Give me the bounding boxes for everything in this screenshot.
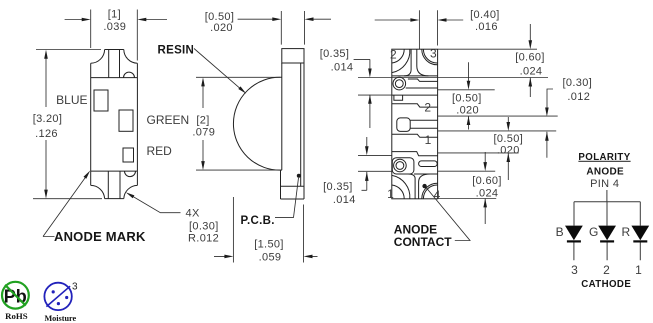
anode bus wire bbox=[574, 190, 640, 226]
svg-text:1: 1 bbox=[387, 187, 394, 201]
arrowheads for dimensions bbox=[44, 17, 549, 258]
svg-text:3: 3 bbox=[72, 282, 78, 293]
svg-text:P.C.B.: P.C.B. bbox=[241, 215, 275, 227]
left view top contact separator bbox=[91, 77, 138, 79]
diode G bbox=[598, 226, 616, 241]
svg-text:.020: .020 bbox=[497, 144, 520, 156]
svg-text:ANODE MARK: ANODE MARK bbox=[54, 229, 146, 244]
leader for anode mark bbox=[43, 177, 86, 236]
svg-text:[1]: [1] bbox=[108, 9, 121, 21]
diode B cathode bar bbox=[567, 240, 581, 242]
right view pin3 pad hole bbox=[395, 80, 403, 88]
right view small tab below pad line bbox=[394, 95, 403, 100]
svg-text:PIN 4: PIN 4 bbox=[590, 178, 619, 190]
dimension [0.50] .020 top of middle view bbox=[238, 11, 331, 45]
leader for pcb bbox=[275, 178, 299, 218]
diode G cathode bar bbox=[600, 240, 614, 242]
svg-text:.024: .024 bbox=[476, 187, 499, 199]
right view lower stepped line bbox=[392, 152, 438, 156]
right view pin3 pad bar bbox=[406, 79, 438, 88]
svg-text:[0.30]: [0.30] bbox=[562, 77, 592, 89]
right view bottom center channel bbox=[408, 174, 430, 199]
svg-text:[2]: [2] bbox=[196, 114, 209, 126]
svg-text:.126: .126 bbox=[35, 128, 58, 140]
pcb leader dot bbox=[297, 174, 301, 178]
svg-text:4: 4 bbox=[434, 188, 441, 202]
svg-text:[0.60]: [0.60] bbox=[515, 52, 545, 64]
right view horizontal reference lines bbox=[358, 49, 558, 198]
svg-text:RoHS: RoHS bbox=[5, 311, 28, 321]
leader for resin bbox=[194, 49, 240, 89]
svg-text:1: 1 bbox=[635, 263, 642, 277]
svg-text:[3.20]: [3.20] bbox=[33, 113, 63, 125]
svg-text:R.012: R.012 bbox=[188, 233, 219, 245]
svg-text:.079: .079 bbox=[192, 127, 215, 139]
svg-text:.014: .014 bbox=[331, 61, 354, 73]
svg-text:POLARITY: POLARITY bbox=[578, 152, 630, 163]
svg-text:2: 2 bbox=[603, 263, 610, 277]
dimension [0.35] .014 upper left of right view bbox=[354, 59, 370, 128]
svg-text:.020: .020 bbox=[210, 22, 233, 34]
right view keyhole twin traces bbox=[410, 120, 437, 128]
svg-text:1: 1 bbox=[425, 133, 432, 147]
middle view pcb strip bbox=[281, 49, 305, 199]
dimension [3.20] .126 left of left view bbox=[33, 50, 102, 199]
dimension [0.60] .024 bottom right of right view bbox=[484, 152, 486, 224]
leader for 4x radius note bbox=[132, 196, 181, 213]
right view pin4 pad hole boss bbox=[394, 159, 407, 172]
right view top center channel bbox=[392, 49, 438, 76]
anode contact leader dot bbox=[422, 184, 426, 188]
left view package body outline bbox=[91, 50, 138, 199]
right view pad boundary line bbox=[392, 94, 438, 96]
right view pin4 pad hole bbox=[396, 162, 404, 170]
right view pin4 pad slot bbox=[419, 161, 438, 167]
svg-text:.012: .012 bbox=[567, 91, 590, 103]
svg-text:.039: .039 bbox=[103, 21, 126, 33]
svg-text:G: G bbox=[589, 225, 598, 239]
svg-text:3: 3 bbox=[571, 263, 578, 277]
svg-text:R: R bbox=[622, 225, 631, 239]
right view pin2 band top stepped line bbox=[392, 104, 438, 107]
right view body outline bbox=[392, 49, 438, 199]
diode R bbox=[631, 226, 649, 241]
svg-text:.020: .020 bbox=[456, 105, 479, 117]
diode B bbox=[565, 226, 583, 241]
svg-text:3: 3 bbox=[430, 47, 437, 61]
svg-text:B: B bbox=[556, 225, 564, 239]
resin dome bbox=[233, 77, 281, 170]
svg-text:2: 2 bbox=[390, 47, 397, 61]
left view bottom contact separator bbox=[91, 170, 138, 172]
svg-text:.014: .014 bbox=[333, 194, 356, 206]
svg-text:4X: 4X bbox=[186, 208, 200, 220]
svg-text:2: 2 bbox=[424, 101, 431, 115]
left view bottom contact inner verticals bbox=[108, 171, 120, 199]
diode R cathode bar bbox=[633, 240, 647, 242]
right view bottom corner fillet arcs bbox=[392, 175, 438, 198]
svg-text:[0.50]: [0.50] bbox=[493, 133, 523, 145]
svg-text:RED: RED bbox=[147, 144, 173, 158]
dimension [0.50] .020 lower right of right view bbox=[507, 117, 509, 180]
dimension [2] .079 left of middle view bbox=[196, 77, 282, 170]
svg-text:Moisture: Moisture bbox=[44, 314, 76, 323]
dimension [0.60] .024 top right of right view bbox=[529, 24, 531, 97]
svg-text:[0.35]: [0.35] bbox=[320, 48, 350, 60]
anode mark bump top bbox=[124, 72, 135, 78]
rohs pb-free symbol bbox=[2, 282, 29, 309]
svg-text:[0.30]: [0.30] bbox=[189, 221, 219, 233]
right view pin1 band stepped line bbox=[392, 134, 438, 137]
right view top corner fillet arcs bbox=[392, 49, 438, 72]
svg-text:CONTACT: CONTACT bbox=[394, 235, 452, 249]
right view pin4 pad outline bbox=[392, 158, 414, 174]
right view pin3 pad hole boss bbox=[393, 77, 406, 90]
svg-text:[0.40]: [0.40] bbox=[470, 9, 500, 21]
cathode lead wires bbox=[574, 243, 640, 261]
svg-text:[0.50]: [0.50] bbox=[452, 92, 482, 104]
left view top contact inner verticals bbox=[109, 50, 120, 78]
svg-text:BLUE: BLUE bbox=[56, 93, 87, 107]
red chip bbox=[123, 148, 134, 162]
dimension [1.50] .059 bottom of middle view bbox=[214, 197, 318, 263]
svg-text:RESIN: RESIN bbox=[158, 44, 195, 56]
dimension [0.40] .016 top of right view bbox=[375, 10, 464, 49]
svg-text:[0.60]: [0.60] bbox=[472, 175, 502, 187]
green chip bbox=[119, 110, 133, 131]
svg-text:.016: .016 bbox=[475, 21, 498, 33]
anode mark bump bottom bbox=[125, 171, 136, 177]
blue chip bbox=[94, 90, 108, 111]
dimension [0.50] .020 upper right of right view bbox=[468, 62, 470, 129]
svg-text:GREEN: GREEN bbox=[147, 113, 190, 127]
svg-text:CATHODE: CATHODE bbox=[581, 279, 631, 290]
right view keyhole slot bbox=[397, 118, 410, 131]
svg-text:.059: .059 bbox=[259, 251, 282, 263]
svg-text:[0.35]: [0.35] bbox=[323, 181, 353, 193]
dimension [0.35] .014 lower left of right view bbox=[362, 137, 367, 190]
leader for anode contact bbox=[427, 188, 471, 241]
svg-text:[1.50]: [1.50] bbox=[254, 239, 284, 251]
dimension [0.30] .012 right of right view bbox=[547, 89, 553, 158]
right view pad bottom line bbox=[414, 173, 438, 175]
moisture symbol bbox=[44, 282, 78, 311]
dimension [1] .039 top of left view bbox=[65, 10, 167, 61]
svg-text:.024: .024 bbox=[520, 65, 543, 77]
svg-text:ANODE: ANODE bbox=[586, 167, 624, 178]
